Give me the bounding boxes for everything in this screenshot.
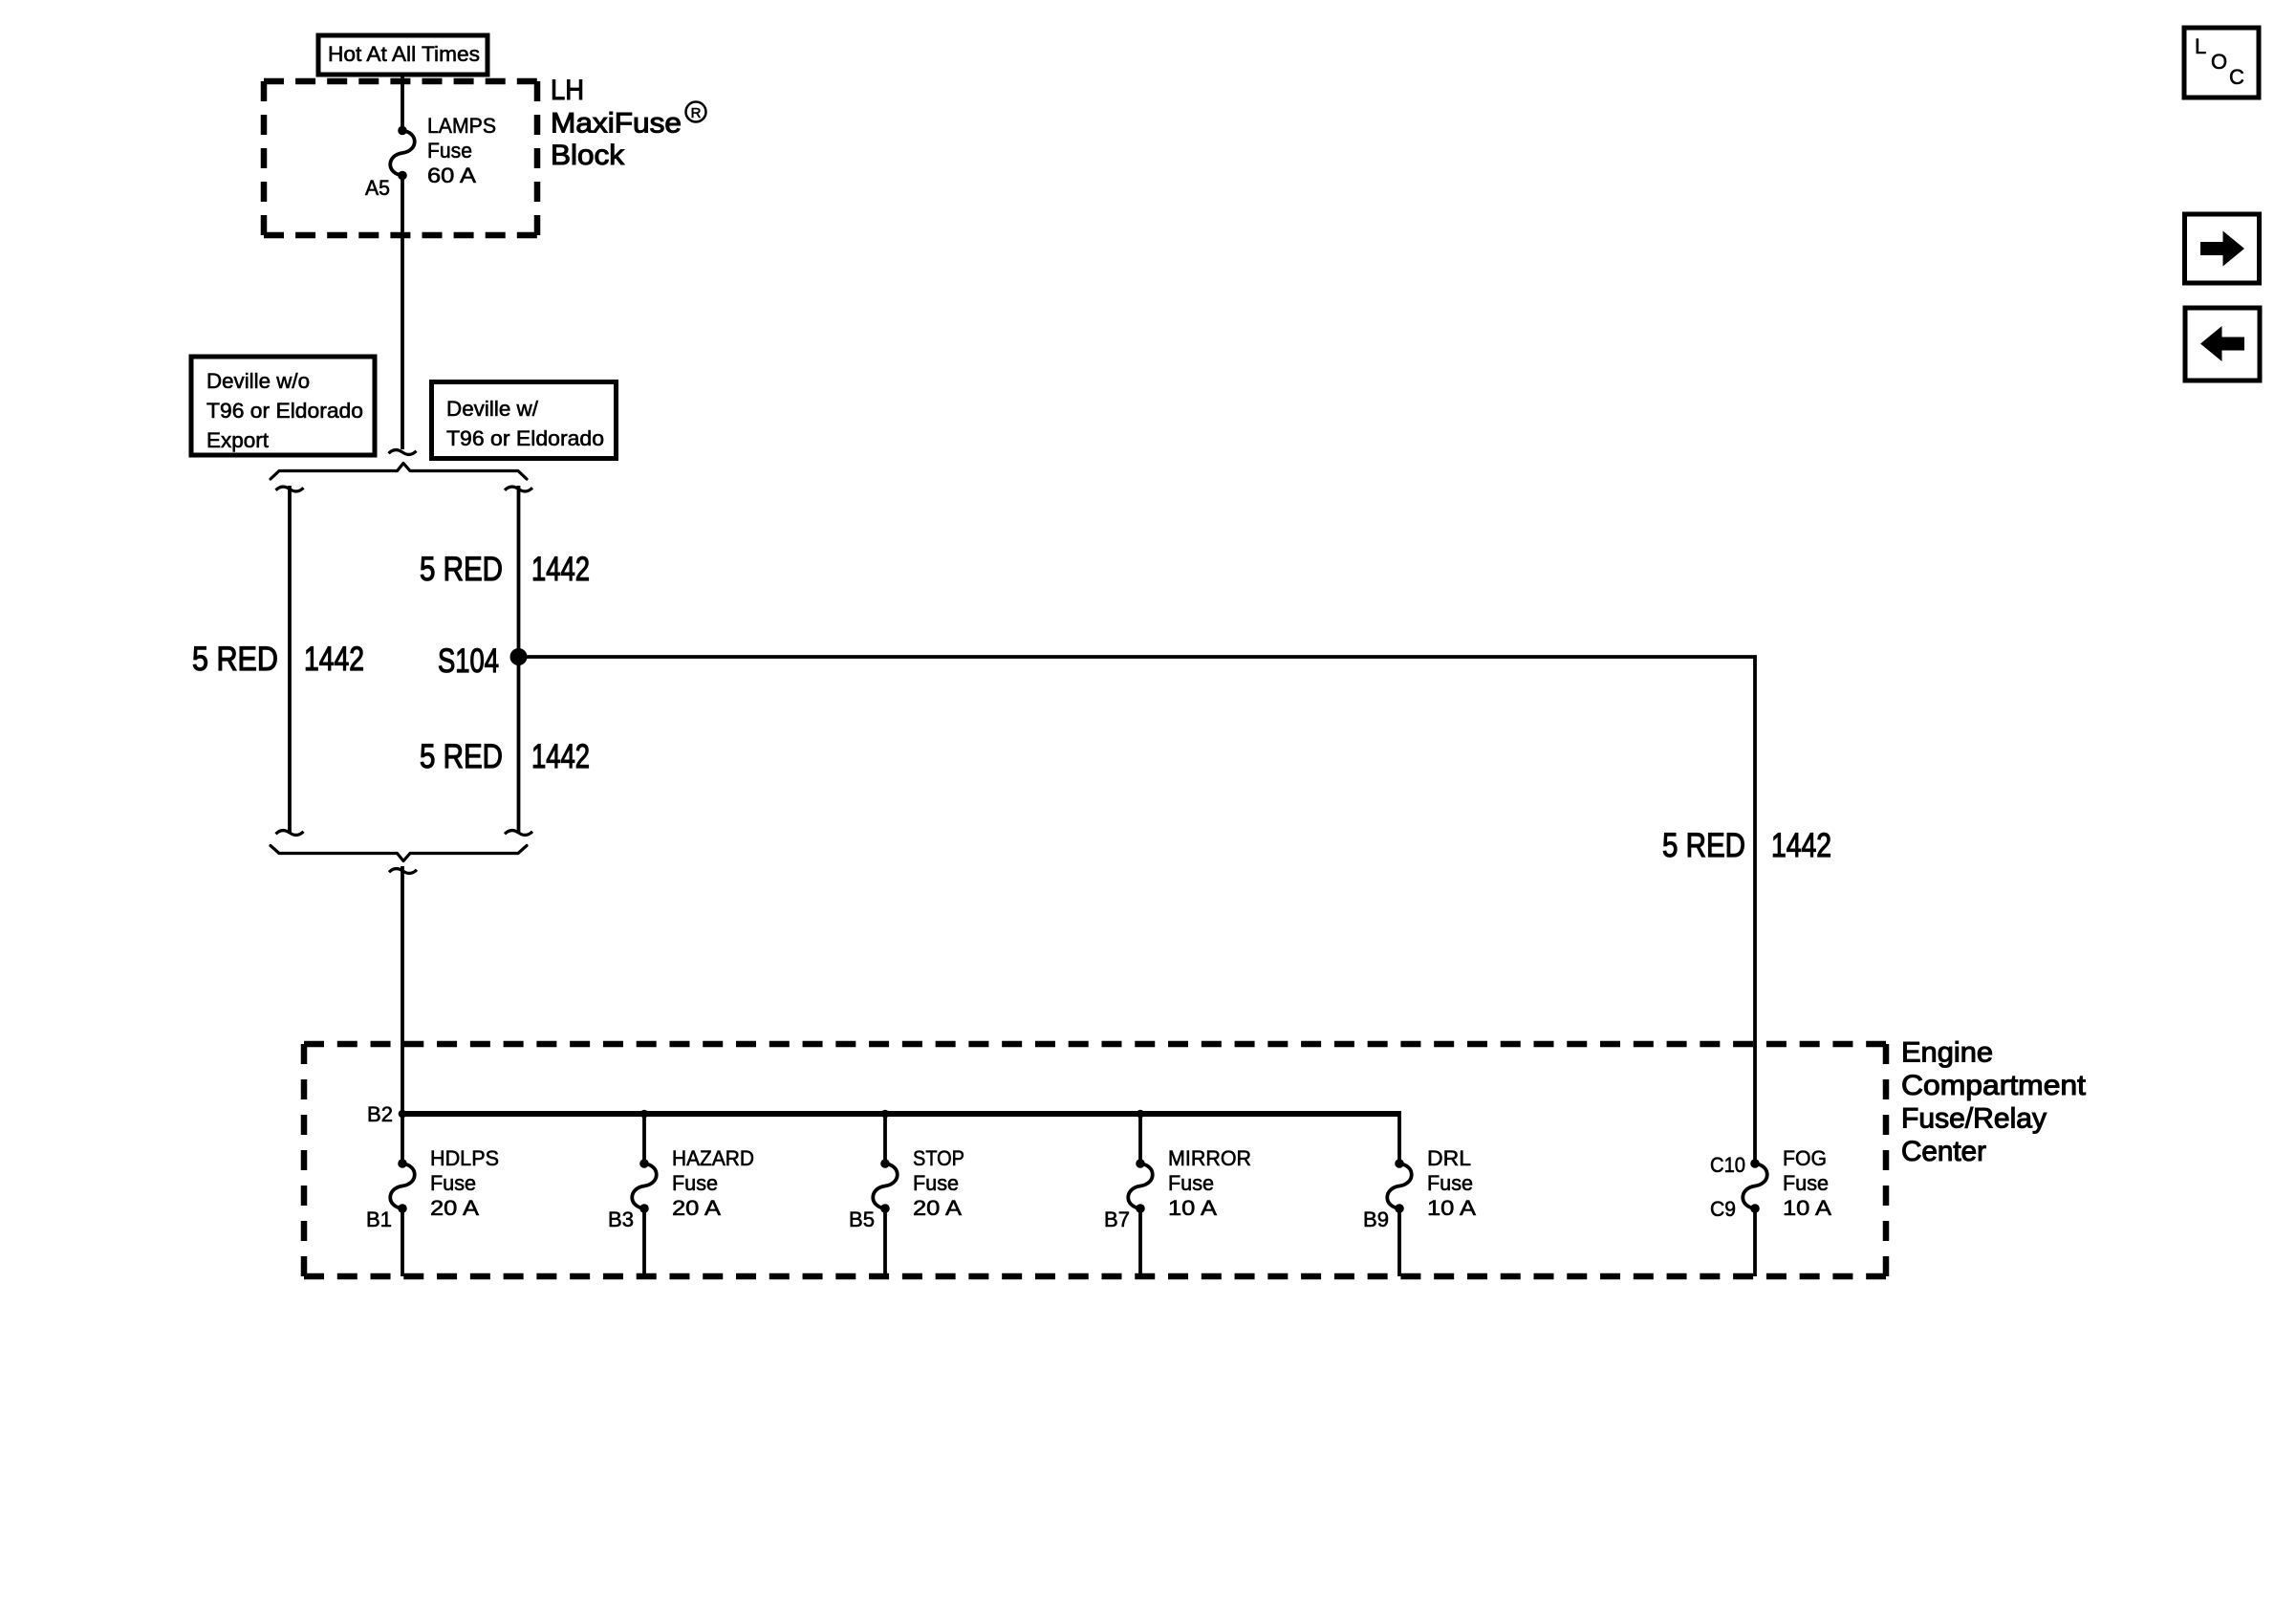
svg-text:C9: C9	[1710, 1197, 1736, 1221]
svg-text:1442: 1442	[304, 641, 364, 678]
svg-text:10 A: 10 A	[1783, 1196, 1831, 1220]
svg-text:Fuse/Relay: Fuse/Relay	[1901, 1103, 2047, 1135]
svg-text:Fuse: Fuse	[430, 1171, 476, 1195]
svg-text:10 A: 10 A	[1427, 1196, 1476, 1220]
svg-text:Compartment: Compartment	[1901, 1070, 2087, 1101]
svg-text:Fuse: Fuse	[1783, 1171, 1829, 1195]
svg-text:MIRROR: MIRROR	[1168, 1146, 1251, 1170]
svg-text:Deville w/o: Deville w/o	[206, 369, 310, 393]
svg-text:Export: Export	[206, 428, 269, 452]
svg-text:5 RED: 5 RED	[420, 738, 503, 775]
svg-text:Engine: Engine	[1901, 1037, 1993, 1069]
svg-text:5 RED: 5 RED	[1662, 827, 1745, 864]
svg-text:1442: 1442	[531, 551, 590, 588]
svg-text:10 A: 10 A	[1168, 1196, 1217, 1220]
svg-text:HAZARD: HAZARD	[672, 1146, 754, 1170]
svg-text:Deville w/: Deville w/	[446, 397, 539, 421]
svg-text:B5: B5	[849, 1207, 875, 1231]
svg-text:5 RED: 5 RED	[192, 641, 278, 678]
svg-text:FOG: FOG	[1783, 1146, 1827, 1170]
svg-text:LH: LH	[551, 75, 584, 106]
svg-text:T96 or Eldorado: T96 or Eldorado	[446, 426, 604, 450]
svg-text:O: O	[2211, 50, 2227, 74]
svg-text:Center: Center	[1901, 1136, 1986, 1167]
svg-text:R: R	[691, 105, 702, 121]
svg-text:LAMPS: LAMPS	[427, 114, 496, 138]
svg-text:Fuse: Fuse	[427, 139, 472, 163]
svg-text:5 RED: 5 RED	[420, 551, 503, 588]
svg-text:L: L	[2195, 34, 2206, 58]
svg-text:Block: Block	[551, 140, 625, 171]
svg-text:Fuse: Fuse	[1427, 1171, 1473, 1195]
svg-text:HDLPS: HDLPS	[430, 1146, 499, 1170]
svg-text:Fuse: Fuse	[913, 1171, 959, 1195]
svg-text:B7: B7	[1104, 1207, 1130, 1231]
svg-text:A5: A5	[365, 176, 390, 200]
svg-text:B9: B9	[1363, 1207, 1389, 1231]
svg-text:B3: B3	[608, 1207, 634, 1231]
svg-text:1442: 1442	[531, 738, 590, 775]
svg-text:20 A: 20 A	[430, 1196, 479, 1220]
svg-text:S104: S104	[438, 642, 499, 680]
svg-text:Hot At All Times: Hot At All Times	[328, 42, 480, 66]
svg-text:B1: B1	[366, 1207, 392, 1231]
svg-text:DRL: DRL	[1427, 1146, 1471, 1170]
svg-text:T96 or Eldorado: T96 or Eldorado	[206, 399, 363, 423]
svg-text:1442: 1442	[1771, 827, 1831, 864]
svg-text:Fuse: Fuse	[672, 1171, 718, 1195]
svg-text:STOP: STOP	[913, 1146, 964, 1170]
svg-text:20 A: 20 A	[913, 1196, 962, 1220]
svg-text:60 A: 60 A	[427, 163, 476, 187]
svg-text:B2: B2	[367, 1102, 393, 1126]
svg-text:Fuse: Fuse	[1168, 1171, 1214, 1195]
svg-text:C10: C10	[1710, 1153, 1745, 1177]
svg-text:20 A: 20 A	[672, 1196, 721, 1220]
svg-text:MaxiFuse: MaxiFuse	[551, 108, 682, 140]
svg-text:C: C	[2229, 65, 2244, 89]
